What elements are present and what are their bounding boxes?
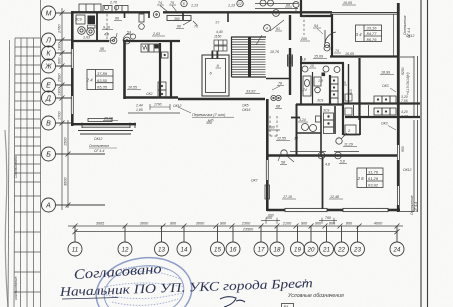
svg-text:78: 78 <box>278 82 282 86</box>
svg-text:11: 11 <box>72 246 78 253</box>
svg-text:4,40: 4,40 <box>216 30 223 34</box>
svg-text:600: 600 <box>268 214 274 218</box>
svg-text:Л: Л <box>45 38 51 45</box>
svg-text:24: 24 <box>393 246 401 253</box>
mid kitchen: washing machine <box>141 44 148 52</box>
svg-text:68: 68 <box>276 105 280 109</box>
svg-text:2760: 2760 <box>58 24 62 34</box>
svg-text:ОК16: ОК16 <box>242 108 251 112</box>
svg-text:В: В <box>46 121 51 128</box>
svg-text:Согласовано:: Согласовано: <box>14 155 18 178</box>
radiator bottom-left room <box>88 119 112 122</box>
right wall window lines <box>398 145 400 205</box>
svg-text:1150: 1150 <box>214 35 221 39</box>
lower bath fixtures <box>302 116 321 132</box>
bottom dimension line 1 <box>68 226 403 232</box>
svg-text:86,76: 86,76 <box>367 37 378 42</box>
small box near duct <box>139 14 144 22</box>
stamp inner curved text imitation <box>104 266 184 305</box>
svg-text:900: 900 <box>220 221 227 225</box>
mid kitchen stove black <box>155 45 159 49</box>
svg-text:2580: 2580 <box>58 73 62 83</box>
bath divider <box>312 72 314 104</box>
axis circle E <box>42 78 73 92</box>
radiator bar 360 <box>167 16 191 21</box>
kitchen column cells mid-right <box>331 77 339 104</box>
hall-landing divider <box>266 78 290 80</box>
axis circle Zh <box>42 59 73 73</box>
svg-text:1300: 1300 <box>58 87 62 96</box>
stub below top wall mid <box>183 13 228 22</box>
balcony right lower <box>400 120 418 212</box>
mid window sill lines bottom block top wall <box>290 151 359 153</box>
svg-text:22: 22 <box>337 246 345 253</box>
left axis dim ticks <box>60 11 71 208</box>
circled v small <box>139 24 145 30</box>
left axis rotated dim numbers <box>58 24 68 186</box>
interior divider bottom block <box>322 157 324 209</box>
svg-text:58: 58 <box>100 47 104 51</box>
svg-text:63,50: 63,50 <box>97 78 108 83</box>
svg-text:33,82: 33,82 <box>246 90 256 94</box>
black vent square <box>322 73 326 77</box>
left axis vertical dimension line <box>62 8 68 210</box>
leader OK3 <box>390 88 396 92</box>
svg-text:2,44: 2,44 <box>135 104 143 108</box>
svg-text:33,16: 33,16 <box>367 26 378 31</box>
svg-text:Е: Е <box>46 83 51 90</box>
gas burners <box>78 27 95 36</box>
window line below corridor wall <box>128 112 180 114</box>
svg-text:54: 54 <box>314 24 318 28</box>
radiator on entry wall <box>288 55 293 66</box>
axis circle K <box>42 46 73 60</box>
svg-text:5: 5 <box>344 81 346 85</box>
circled 12 top <box>237 0 243 6</box>
svg-text:23500: 23500 <box>242 227 254 231</box>
svg-text:11,29: 11,29 <box>344 143 353 147</box>
svg-text:+4,15 ОК14(Н): +4,15 ОК14(Н) <box>406 72 410 95</box>
svg-text:ОК12: ОК12 <box>94 137 103 141</box>
circled 19 entry <box>324 45 330 51</box>
kitchen door circle <box>130 34 135 39</box>
inner face line right wall <box>393 14 395 56</box>
svg-text:ОК7: ОК7 <box>251 179 258 183</box>
leader slashes top <box>160 6 177 13</box>
axis circle V <box>42 116 73 130</box>
svg-text:1,85: 1,85 <box>136 108 143 112</box>
svg-text:15,69: 15,69 <box>314 55 323 59</box>
porch wall stub <box>291 117 300 119</box>
svg-text:21: 21 <box>322 246 330 253</box>
svg-text:12,55: 12,55 <box>277 137 286 141</box>
svg-text:18,99: 18,99 <box>381 71 390 75</box>
svg-text:58: 58 <box>281 161 285 165</box>
svg-text:800: 800 <box>329 221 336 225</box>
bottom block bottom wall (axis A) <box>267 209 400 212</box>
left kitchen sink boxes <box>76 15 85 24</box>
svg-text:ОК5: ОК5 <box>242 104 249 108</box>
dashed line entry <box>303 15 305 35</box>
kitchen2 wall vertical x160 <box>159 43 161 98</box>
circle at 296 top <box>293 2 299 8</box>
svg-text:31,76: 31,76 <box>368 170 379 175</box>
svg-text:ОК3: ОК3 <box>381 122 388 126</box>
bottom axis circles 11-24 <box>68 226 404 256</box>
room label box 2-room bottom apt <box>357 168 383 188</box>
circled 12 and 17 on wall B <box>318 152 341 159</box>
svg-text:5,8: 5,8 <box>340 160 345 164</box>
dim 1700 with arrows <box>150 104 170 110</box>
entry hall wall x19 axis <box>289 15 291 95</box>
svg-text:1,13: 1,13 <box>191 4 198 8</box>
svg-text:12: 12 <box>238 2 242 6</box>
right outer wall <box>397 3 400 212</box>
wall segment x300 vertical to bath <box>300 56 302 104</box>
corridor walls right part (axis D right) <box>296 104 420 118</box>
svg-text:900: 900 <box>301 221 308 225</box>
box 2 lower right <box>345 125 356 135</box>
svg-text:600: 600 <box>58 57 62 64</box>
sub dim 600 bottom <box>261 218 280 224</box>
column circle in top wall gap <box>153 11 159 17</box>
svg-text:ОК12: ОК12 <box>403 168 412 172</box>
svg-text:1700: 1700 <box>58 111 62 120</box>
svg-text:9250: 9250 <box>401 67 405 75</box>
top-right corner wall <box>301 0 332 17</box>
leader to peremychka <box>178 107 191 113</box>
svg-text:согласование:: согласование: <box>14 276 18 300</box>
svg-text:84,77: 84,77 <box>367 31 378 36</box>
svg-text:7,05: 7,05 <box>401 99 408 103</box>
svg-text:13: 13 <box>158 246 165 253</box>
svg-text:12: 12 <box>122 246 129 253</box>
svg-text:ОК3: ОК3 <box>382 84 389 88</box>
svg-text:910: 910 <box>349 89 353 95</box>
tambour wall x296 <box>296 104 298 156</box>
circled 6 at entry <box>273 10 280 17</box>
svg-text:300: 300 <box>206 121 212 125</box>
circled 23 with door <box>281 150 287 156</box>
svg-text:760: 760 <box>325 216 332 220</box>
svg-text:19: 19 <box>294 246 301 253</box>
porch dashed steps <box>270 116 277 136</box>
svg-text:900: 900 <box>170 221 177 225</box>
stub below top wall at x124 <box>125 13 150 18</box>
right frame border double line <box>421 0 428 307</box>
svg-text:1,63: 1,63 <box>83 36 90 40</box>
svg-text:4: 4 <box>266 27 268 31</box>
door circles on wall L <box>109 33 131 44</box>
small boxes left of right kitchen <box>345 94 352 115</box>
svg-text:200: 200 <box>300 37 307 41</box>
right kitchen counter row 2 <box>374 108 396 115</box>
bottom dim numbers <box>96 216 383 231</box>
svg-text:16: 16 <box>230 246 237 253</box>
svg-text:М: М <box>46 11 52 18</box>
svg-text:1: 1 <box>304 279 307 285</box>
svg-text:ОК12: ОК12 <box>173 104 182 108</box>
dashed duct line <box>106 14 108 40</box>
legend box bottom clipped <box>282 304 294 307</box>
svg-text:91: 91 <box>276 27 280 31</box>
svg-text:69: 69 <box>286 3 290 7</box>
svg-text:60: 60 <box>177 25 181 29</box>
corridor wall axis D (long, middle) <box>124 98 265 100</box>
small partition right kitchen <box>353 105 355 117</box>
svg-text:15: 15 <box>214 246 221 253</box>
circled 18 with leader <box>336 138 342 144</box>
svg-text:3000: 3000 <box>140 221 149 225</box>
left registration table strip <box>8 0 41 307</box>
stair mid rail black <box>248 37 251 77</box>
axis circle B <box>42 147 106 161</box>
stair treads flight 1 <box>232 40 266 75</box>
svg-text:18: 18 <box>274 246 281 253</box>
duct box with dot <box>162 52 169 58</box>
svg-text:Ж: Ж <box>44 64 52 71</box>
kitchen-corridor divider x171 <box>170 41 172 98</box>
svg-text:3С9: 3С9 <box>317 99 323 103</box>
svg-text:10: 10 <box>310 64 314 68</box>
windows in bottom wall <box>285 208 388 211</box>
fridge dotted boxes mid kitchen <box>158 82 166 98</box>
electrical boxes left of stairs <box>214 40 227 51</box>
svg-text:16,05: 16,05 <box>343 1 352 5</box>
svg-text:Остекление: Остекление <box>89 144 109 148</box>
svg-text:6: 6 <box>275 12 277 16</box>
svg-text:3С9: 3С9 <box>323 109 329 113</box>
entry canopy lines <box>255 4 298 9</box>
svg-text:2,70: 2,70 <box>109 1 117 5</box>
svg-text:Д: Д <box>45 96 51 103</box>
sub dim 760 bottom <box>319 218 337 224</box>
axis circle L <box>42 33 73 47</box>
svg-text:1,13: 1,13 <box>228 4 235 8</box>
top wall axis M right part <box>163 11 332 13</box>
right kitchen counter row 1 <box>374 96 396 103</box>
svg-text:3665: 3665 <box>96 221 105 225</box>
svg-text:18: 18 <box>294 137 298 141</box>
svg-text:17,16: 17,16 <box>283 195 292 199</box>
svg-text:3600: 3600 <box>64 177 68 186</box>
stairwell rails <box>232 37 267 78</box>
svg-text:2 4: 2 4 <box>86 78 94 83</box>
room label box 2-room left apt <box>87 70 113 90</box>
svg-text:14: 14 <box>181 246 188 253</box>
svg-text:65,35: 65,35 <box>97 85 108 90</box>
svg-text:6,8: 6,8 <box>301 58 306 62</box>
svg-text:Перемычка (7 шт): Перемычка (7 шт) <box>192 113 226 117</box>
svg-text:10,55: 10,55 <box>128 86 137 90</box>
scan paper edge <box>5 130 8 307</box>
svg-text:900: 900 <box>315 221 322 225</box>
window on left wall of bottom block <box>265 160 270 199</box>
elevator door ticks <box>212 51 214 59</box>
wall x12 axis (corridor left) <box>123 41 126 99</box>
mid kitchen counter <box>149 44 159 52</box>
bathroom block walls (right middle) <box>300 58 360 135</box>
svg-text:ОГ 4-4: ОГ 4-4 <box>94 149 104 153</box>
window left wall upper <box>71 49 73 68</box>
tiny circles near 2,70 <box>104 5 118 9</box>
svg-text:2,37: 2,37 <box>400 115 408 119</box>
svg-text:75: 75 <box>170 1 174 5</box>
dim 600 at porch <box>268 129 280 131</box>
left kitchen stove (filled) <box>88 16 96 25</box>
svg-text:1700: 1700 <box>154 103 162 107</box>
entry opening columns <box>271 95 281 100</box>
svg-text:4,20: 4,20 <box>401 110 408 114</box>
svg-text:17: 17 <box>258 246 265 253</box>
bath fixtures <box>303 76 321 96</box>
left strip rungs <box>14 38 41 292</box>
left kitchen counter top <box>79 4 128 12</box>
hall wall top right apartment <box>330 14 398 57</box>
svg-text:66: 66 <box>115 17 119 21</box>
svg-text:360: 360 <box>174 17 180 21</box>
balcony right upper <box>400 56 418 117</box>
svg-text:61,29: 61,29 <box>368 176 379 181</box>
lower bathroom cluster <box>296 106 335 157</box>
svg-text:1500: 1500 <box>64 137 68 146</box>
svg-text:4,8: 4,8 <box>104 33 109 37</box>
lower kitchen column boxes <box>324 113 334 134</box>
svg-text:4000: 4000 <box>374 221 383 225</box>
svg-text:23: 23 <box>353 246 361 253</box>
svg-text:9,16: 9,16 <box>103 26 110 30</box>
window left wall lower <box>71 96 73 114</box>
handwriting partial bottom stroke <box>220 297 245 307</box>
svg-text:950: 950 <box>401 146 405 152</box>
circled 8 top <box>181 0 187 6</box>
svg-text:63,92: 63,92 <box>368 183 379 188</box>
svg-text:2,63: 2,63 <box>152 32 160 36</box>
circled 4 with leaders <box>264 25 271 32</box>
circled 8 pair right <box>260 0 274 6</box>
svg-text:2300: 2300 <box>241 221 251 225</box>
bottom block top wall (axis B) <box>267 154 397 156</box>
svg-text:37,89: 37,89 <box>97 71 108 76</box>
svg-text:ОК2: ОК2 <box>146 92 153 96</box>
top thin wall right apartment <box>330 13 397 15</box>
svg-text:2100: 2100 <box>282 221 292 225</box>
bottom-right block left wall <box>266 99 269 211</box>
svg-text:3С9: 3С9 <box>75 18 82 22</box>
lower mid walls right block <box>343 117 360 135</box>
outer wall left <box>71 11 74 126</box>
svg-text:1,8: 1,8 <box>318 79 323 83</box>
svg-text:20: 20 <box>307 246 315 253</box>
wall below left kitchen (axis L) <box>71 40 180 42</box>
bottom wall of left block (axis V) <box>71 123 136 125</box>
svg-text:3,24: 3,24 <box>299 118 306 122</box>
axis circle D <box>42 91 73 105</box>
svg-text:8: 8 <box>183 2 185 6</box>
svg-text:12,48: 12,48 <box>330 195 339 199</box>
svg-text:76: 76 <box>194 25 198 29</box>
svg-text:ОК12: ОК12 <box>406 34 415 38</box>
svg-text:4,8: 4,8 <box>325 163 330 167</box>
window in bottom wall left block <box>78 123 135 135</box>
svg-text:800: 800 <box>346 221 353 225</box>
svg-text:Условные обозначения: Условные обозначения <box>288 293 344 299</box>
hall door arc <box>324 30 336 48</box>
svg-text:74: 74 <box>335 49 339 53</box>
axis circle M <box>42 6 73 20</box>
kitchen divider top-left <box>96 13 98 41</box>
axis circle A <box>42 198 106 212</box>
underline below Nachalnik <box>62 298 118 300</box>
svg-text:25,90: 25,90 <box>103 117 113 121</box>
svg-text:3 4: 3 4 <box>356 32 363 37</box>
stair treads flight 2 <box>251 60 266 75</box>
svg-text:1300: 1300 <box>58 42 62 51</box>
circled 17 and 10 bath <box>302 66 308 72</box>
stamp ellipse blue <box>92 252 197 307</box>
svg-text:600: 600 <box>269 126 275 130</box>
elevator shaft <box>202 55 229 96</box>
leader lines from 360 bar <box>183 21 197 25</box>
svg-text:10,76: 10,76 <box>270 50 279 54</box>
bottom dim ticks line1 <box>73 224 400 235</box>
svg-text:2,74: 2,74 <box>299 88 307 92</box>
svg-text:74: 74 <box>158 1 162 5</box>
svg-text:ОГ 4-4: ОГ 4-4 <box>414 202 418 212</box>
top wall axis M left part <box>71 11 150 13</box>
svg-text:Б: Б <box>46 152 51 159</box>
svg-text:3000: 3000 <box>196 221 205 225</box>
svg-text:2 6: 2 6 <box>357 176 365 181</box>
svg-text:А: А <box>45 203 51 210</box>
circled 13 and 9 <box>323 66 340 73</box>
svg-text:16,05: 16,05 <box>345 52 354 56</box>
room label box 3-room apt <box>356 25 382 42</box>
